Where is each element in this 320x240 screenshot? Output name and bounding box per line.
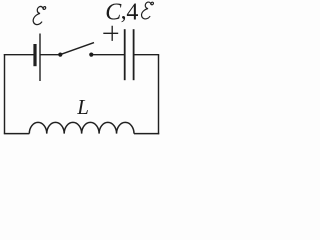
- wire right vertical rail: [158, 55, 160, 135]
- wire bottom-right segment: [134, 133, 159, 135]
- wire switch to capacitor: [91, 54, 124, 56]
- label script-E of 4E: [141, 2, 153, 19]
- switch blade (open): [60, 43, 94, 55]
- wire battery to switch: [40, 54, 60, 56]
- inductor L coil (6 loops): [29, 122, 134, 133]
- wire capacitor to right rail: [134, 54, 160, 56]
- battery cell E : thin long positive plate: [39, 34, 41, 82]
- switch pivot node (left dot): [58, 53, 62, 57]
- capacitor C left plate: [124, 29, 126, 80]
- label EMF script-E (battery): [33, 6, 46, 24]
- battery cell E : thick short negative plate: [33, 44, 36, 66]
- wire top-left horizontal: [4, 54, 34, 56]
- svg-text:L: L: [76, 95, 89, 119]
- wire bottom-left segment: [4, 133, 30, 135]
- capacitor C right plate: [133, 29, 135, 80]
- plus polarity sign on capacitor: [103, 26, 118, 41]
- switch contact node (right dot): [89, 53, 93, 57]
- svg-text:4: 4: [126, 0, 138, 26]
- wire left vertical rail: [4, 54, 6, 134]
